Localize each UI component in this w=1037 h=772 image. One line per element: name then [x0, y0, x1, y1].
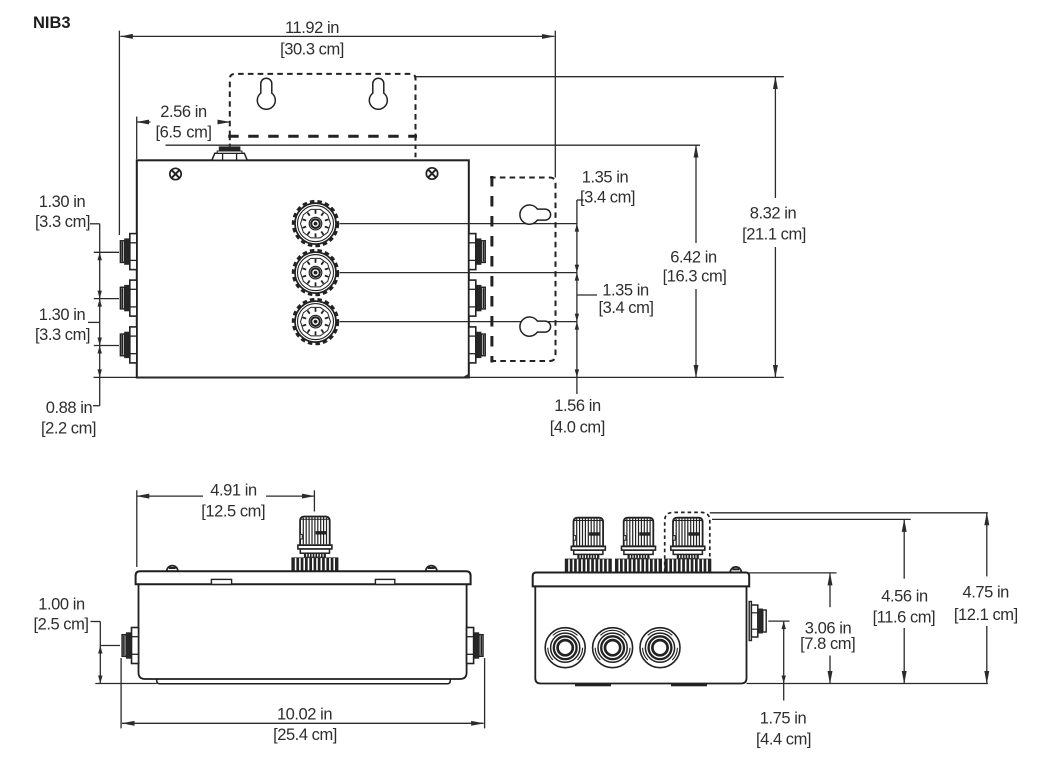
left side connectors [120, 234, 136, 270]
svg-text:[6.5 cm]: [6.5 cm] [155, 124, 211, 142]
svg-text:[2.5 cm]: [2.5 cm] [33, 616, 88, 634]
svg-text:[4.4 cm]: [4.4 cm] [756, 731, 811, 749]
left chain dimension line (1.30/0.88) [99, 224, 101, 406]
svg-text:1.75 in: 1.75 in [760, 710, 807, 728]
svg-text:[25.4 cm]: [25.4 cm] [273, 726, 337, 744]
foot right [671, 684, 707, 687]
svg-text:NIB3: NIB3 [33, 14, 71, 32]
svg-text:6.42 in: 6.42 in [670, 249, 717, 267]
connector centre line row 2 [340, 272, 577, 274]
svg-text:0.88 in: 0.88 in [46, 399, 93, 417]
svg-text:1.30 in: 1.30 in [39, 306, 86, 324]
cable gland 3 (side view) [664, 518, 711, 573]
connector centre line row 3 [340, 321, 577, 323]
svg-text:10.02 in: 10.02 in [277, 706, 332, 724]
dim 4.56 line [903, 519, 905, 578]
svg-text:1.56 in: 1.56 in [554, 397, 601, 415]
dim 6.42 line [695, 145, 697, 243]
side connector on right edge [749, 602, 766, 641]
svg-text:1.00 in: 1.00 in [38, 596, 85, 614]
lid screw bump (side view) [730, 567, 741, 573]
svg-text:[3.3 cm]: [3.3 cm] [35, 213, 90, 231]
round connector 3 (end view) [640, 628, 680, 668]
lid screw bump left [167, 566, 178, 572]
keyhole slot right (top bracket) [369, 78, 387, 109]
svg-text:11.92 in: 11.92 in [285, 19, 339, 37]
svg-text:[12.1 cm]: [12.1 cm] [954, 606, 1018, 624]
round connector 1 (end view) [545, 628, 585, 668]
dim 4.75 line [986, 513, 988, 577]
dim 2.56 line [137, 121, 151, 123]
lid screw right [426, 168, 437, 179]
dim 8.32 line [774, 77, 776, 198]
svg-text:[7.8 cm]: [7.8 cm] [800, 635, 855, 653]
svg-text:8.32 in: 8.32 in [750, 205, 797, 223]
right side connectors [469, 234, 485, 270]
svg-text:[21.1 cm]: [21.1 cm] [742, 226, 806, 244]
lid screw bump right [426, 566, 437, 572]
enclosure body (top view) [139, 584, 467, 679]
svg-text:1.35 in: 1.35 in [582, 169, 629, 187]
svg-text:[3.3 cm]: [3.3 cm] [35, 326, 90, 344]
extension line from gland tops [712, 518, 911, 520]
dim 11.92 extension lines [118, 31, 120, 235]
svg-text:[2.2 cm]: [2.2 cm] [41, 420, 96, 438]
lid clip left [211, 579, 231, 584]
foot left [575, 684, 611, 687]
extension line from dashed gland top [710, 512, 988, 514]
enclosure body (side view) [535, 586, 746, 683]
dim 3.06 line [829, 573, 831, 607]
top cable gland (front view, small) [212, 146, 248, 160]
chain arrows 1.35/1.56 [575, 224, 579, 378]
round connector knob 2 [293, 250, 337, 294]
dim 8.32 extension line [416, 76, 784, 78]
wall bracket top (dashed) [228, 74, 417, 160]
svg-text:[12.5 cm]: [12.5 cm] [201, 503, 265, 521]
svg-text:[11.6 cm]: [11.6 cm] [873, 609, 936, 627]
dim 1.00 leader and line [91, 621, 101, 623]
svg-text:4.56 in: 4.56 in [881, 588, 928, 606]
keyhole slot upper (right bracket) [520, 205, 551, 224]
svg-text:1.30 in: 1.30 in [39, 193, 86, 211]
cable gland 2 (side view) [615, 518, 662, 573]
svg-text:4.91 in: 4.91 in [210, 482, 257, 500]
svg-text:[16.3 cm]: [16.3 cm] [663, 268, 727, 286]
dim 11.92 line [120, 35, 554, 37]
svg-text:[30.3 cm]: [30.3 cm] [280, 41, 344, 59]
dashed outline around gland 3 [665, 512, 710, 572]
lid screw left [170, 168, 181, 179]
bottom reference line [94, 376, 784, 378]
enclosure lid (top view) [136, 571, 471, 584]
round connector 2 (end view) [593, 628, 633, 668]
svg-text:4.75 in: 4.75 in [963, 584, 1010, 602]
keyhole slot lower (right bracket) [520, 317, 551, 336]
extension line from lid top [749, 572, 836, 574]
dim 4.91 extension lines [136, 490, 138, 567]
dim 10.02 line [122, 722, 484, 724]
lid clip right [375, 579, 394, 584]
dim 6.42 extension line [166, 144, 701, 146]
svg-text:[3.4 cm]: [3.4 cm] [598, 299, 653, 317]
svg-text:1.35 in: 1.35 in [602, 282, 649, 300]
connector centre line row 1 [340, 223, 577, 225]
cable gland (top view) [291, 517, 338, 572]
bottom lip [157, 679, 451, 684]
right connector (top view) [467, 628, 483, 664]
dim 4.91 line [137, 495, 203, 497]
dim 2.56 extension line [136, 117, 138, 159]
left connector (top view) [122, 628, 138, 664]
wall bracket right (dashed) [490, 176, 556, 363]
enclosure front face [137, 160, 469, 377]
svg-text:[3.4 cm]: [3.4 cm] [580, 189, 635, 207]
dim 10.02 extension lines [120, 658, 122, 728]
svg-text:2.56 in: 2.56 in [160, 103, 207, 121]
enclosure lid (side view) [533, 573, 750, 587]
keyhole slot left (top bracket) [257, 78, 275, 109]
svg-text:[4.0 cm]: [4.0 cm] [550, 419, 605, 437]
round connector knob 1 [293, 201, 337, 245]
cable gland 1 (side view) [565, 518, 612, 573]
bottom reference line [747, 683, 988, 685]
round connector knob 3 [293, 299, 337, 343]
dim 1.75 leader and line [768, 620, 789, 622]
dim 1.35 chain line [576, 200, 578, 394]
